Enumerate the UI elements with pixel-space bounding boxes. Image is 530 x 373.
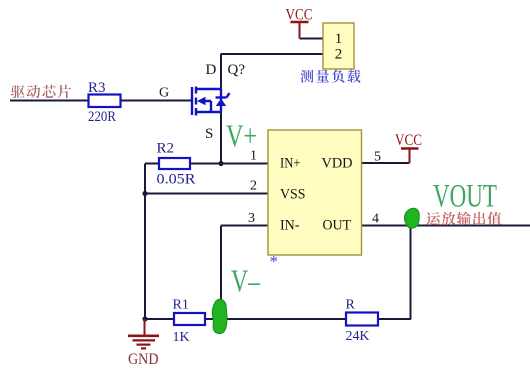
svg-text:OUT: OUT [323, 218, 352, 234]
svg-text:V–: V– [231, 263, 261, 299]
svg-text:D: D [206, 62, 217, 78]
svg-text:R3: R3 [88, 80, 106, 96]
svg-text:4: 4 [372, 212, 379, 227]
svg-text:VCC: VCC [286, 7, 313, 24]
svg-text:GND: GND [128, 351, 159, 368]
svg-text:1: 1 [335, 31, 343, 47]
svg-text:3: 3 [248, 211, 255, 226]
svg-text:2: 2 [335, 47, 343, 63]
svg-text:VCC: VCC [395, 132, 422, 149]
svg-text:*: * [270, 252, 279, 271]
svg-text:R2: R2 [157, 141, 175, 157]
svg-text:R1: R1 [173, 298, 189, 313]
svg-text:G: G [159, 86, 169, 101]
svg-text:24K: 24K [346, 329, 370, 344]
svg-text:1K: 1K [173, 330, 190, 345]
svg-text:220R: 220R [88, 109, 116, 125]
svg-text:S: S [205, 126, 213, 142]
svg-text:VSS: VSS [280, 187, 306, 203]
svg-text:5: 5 [374, 150, 381, 165]
svg-text:0.05R: 0.05R [157, 172, 196, 188]
svg-text:2: 2 [250, 179, 257, 194]
svg-text:Q?: Q? [228, 62, 246, 78]
svg-text:V+: V+ [226, 118, 257, 154]
svg-text:R: R [346, 298, 356, 313]
svg-text:IN+: IN+ [280, 156, 301, 172]
svg-text:VDD: VDD [322, 156, 353, 172]
svg-text:IN-: IN- [280, 218, 300, 234]
svg-text:VOUT: VOUT [433, 179, 497, 215]
